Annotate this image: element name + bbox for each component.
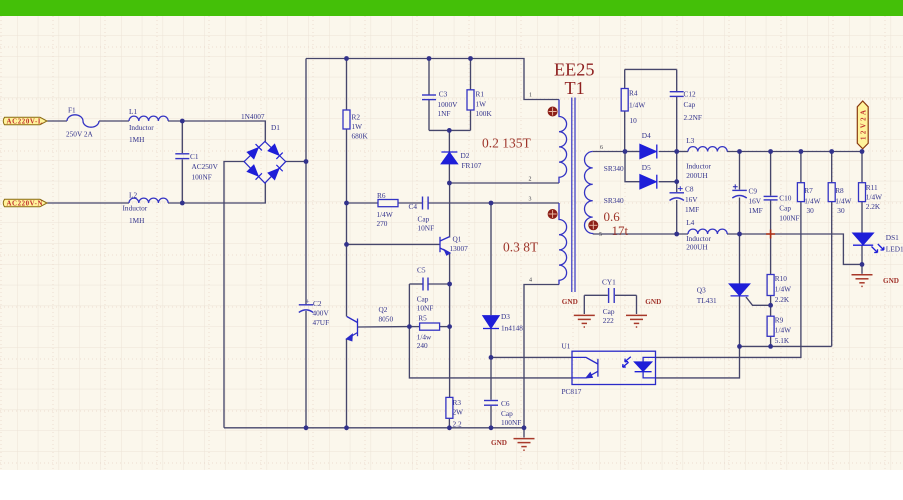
svg-text:222: 222 (603, 316, 614, 325)
svg-text:GND: GND (645, 298, 661, 306)
wire L2 to bridge bottom stem (168, 183, 265, 204)
wire LED gnd stem (861, 264, 863, 273)
diode D1a top-left (247, 144, 282, 180)
wire D3 top to pin3 node (490, 203, 492, 315)
svg-text:CY1: CY1 (602, 277, 616, 286)
wire secondary ground bus right of L4 (727, 234, 862, 264)
wire R10 top stem (770, 234, 772, 275)
LED DS1 (853, 233, 884, 252)
wire pin3 node to R6 (347, 202, 379, 204)
capacitor C1 (175, 154, 189, 159)
svg-text:47UF: 47UF (313, 318, 330, 327)
TL431 Q3 (730, 284, 750, 296)
svg-text:C12: C12 (684, 89, 697, 98)
capacitor C5 (423, 278, 428, 291)
wire GND stem below rail (523, 428, 525, 438)
port 12V2A (857, 101, 868, 149)
svg-text:2W: 2W (453, 408, 464, 417)
U1 coupling arrows (625, 357, 631, 362)
svg-text:C6: C6 (501, 399, 510, 408)
svg-text:0.2 135T: 0.2 135T (482, 136, 532, 151)
svg-text:C4: C4 (409, 202, 418, 211)
svg-text:1/4W: 1/4W (835, 196, 851, 205)
svg-text:16V: 16V (749, 196, 762, 205)
inductor L3 (688, 147, 727, 152)
resistor R4 (621, 89, 628, 112)
wire C4 to D3 node and transformer pin 3 (428, 202, 559, 204)
capacitor C2 electrolytic (299, 305, 313, 313)
wire R4 stems (624, 69, 626, 88)
port AC220V-N (3, 199, 47, 207)
wire secondary ground bus left of L4 (593, 233, 688, 235)
wire D2 anode to pin2 node (448, 164, 450, 183)
wire C12 stems (676, 69, 678, 91)
svg-text:U1: U1 (562, 341, 571, 350)
resistor R8 (828, 183, 835, 202)
svg-text:5.1K: 5.1K (775, 336, 790, 345)
polarity dot aux (548, 209, 558, 219)
svg-text:400V: 400V (313, 308, 330, 317)
svg-text:D5: D5 (642, 163, 651, 172)
wire Q2 emitter to ground rail (346, 339, 348, 428)
svg-text:C10: C10 (779, 194, 792, 203)
svg-text:2.2K: 2.2K (775, 295, 790, 304)
svg-text:10NF: 10NF (417, 304, 434, 313)
svg-text:R5: R5 (418, 313, 427, 322)
svg-text:C3: C3 (439, 90, 448, 99)
svg-text:5: 5 (599, 232, 602, 238)
svg-text:1/4W: 1/4W (804, 196, 820, 205)
wire R1 top stem (470, 59, 472, 90)
wire LED cathode to gnd node (861, 245, 863, 264)
wire C5 left node down to R5 node (408, 284, 410, 327)
wire Q1 collector (449, 183, 451, 238)
svg-text:17t: 17t (612, 223, 629, 238)
wire pin2 node to transformer pin 2 (449, 182, 559, 184)
wire R2 top stem (346, 59, 348, 111)
wire R2 bottom to base node (346, 129, 348, 203)
svg-text:F1: F1 (68, 106, 76, 115)
wire R8 top stem (831, 152, 833, 183)
svg-text:+: + (306, 297, 310, 306)
svg-text:AC220V-L: AC220V-L (7, 118, 43, 125)
svg-text:100NF: 100NF (192, 173, 212, 182)
svg-text:Inductor: Inductor (123, 204, 148, 213)
svg-text:1/4W: 1/4W (377, 210, 393, 219)
wire C10 bottom to ground bus (770, 201, 772, 235)
port AC220V-L (3, 117, 47, 125)
svg-text:R4: R4 (629, 88, 638, 97)
diode D2 FR107 (441, 152, 457, 164)
wire C6 bottom to ground rail (490, 406, 492, 428)
svg-text:1/4W: 1/4W (629, 100, 645, 109)
svg-text:Q2: Q2 (379, 305, 388, 314)
wire CY1 right to secondary gnd (615, 294, 637, 296)
svg-text:2.2K: 2.2K (866, 202, 881, 211)
wire Q2 base (358, 326, 410, 328)
svg-text:8050: 8050 (379, 314, 394, 323)
svg-text:L4: L4 (686, 218, 694, 227)
capacitor CY1 (609, 288, 615, 303)
svg-text:L3: L3 (686, 136, 694, 145)
svg-text:270: 270 (377, 219, 388, 228)
wire primary ground rail (224, 427, 524, 429)
diode D3 1n4148 (483, 316, 499, 329)
svg-text:D4: D4 (642, 131, 651, 140)
svg-text:13007: 13007 (450, 244, 469, 253)
ground symbol LED (852, 275, 873, 287)
svg-text:1: 1 (529, 93, 532, 99)
svg-text:R11: R11 (866, 183, 878, 192)
ground symbol CY1 left (574, 315, 595, 327)
svg-text:1MF: 1MF (749, 206, 763, 215)
junction red cross (766, 230, 775, 239)
wire D5 cathode to node (659, 152, 677, 182)
wire R7 bottom down to opto anode line (656, 202, 801, 358)
svg-text:R7: R7 (804, 186, 813, 195)
resistor R3 (446, 397, 453, 418)
capacitor C3 (422, 95, 436, 100)
wire anode node down to D5 (625, 152, 640, 182)
wire R3 bottom to ground rail (448, 418, 450, 428)
svg-text:100NF: 100NF (779, 213, 799, 222)
wire C10 top stem (770, 152, 772, 196)
resistor R6 (378, 200, 398, 207)
wire cathode node to L3 (677, 151, 688, 153)
fuse F1 (67, 115, 99, 127)
inductor L4 (688, 229, 727, 234)
svg-text:L1: L1 (129, 107, 137, 116)
wire C5 left stem (409, 283, 422, 285)
svg-text:4: 4 (529, 278, 532, 284)
capacitor C9 electrolytic (732, 184, 747, 198)
wire opto node to U1 pin4 (491, 356, 572, 358)
svg-text:Cap: Cap (779, 204, 791, 213)
svg-text:680K: 680K (352, 132, 369, 141)
svg-text:R3: R3 (453, 398, 462, 407)
diode D1b top-right (268, 144, 282, 158)
svg-text:Q1: Q1 (453, 235, 462, 244)
svg-text:1MH: 1MH (129, 135, 145, 144)
transformer secondary winding (585, 152, 593, 235)
svg-text:D2: D2 (461, 151, 470, 160)
svg-text:1/4W: 1/4W (775, 285, 791, 294)
svg-text:GND: GND (883, 277, 899, 285)
svg-text:AC250V: AC250V (192, 162, 219, 171)
svg-text:R10: R10 (775, 274, 788, 283)
diode D1c bottom-left (247, 165, 261, 179)
svg-text:AC220V-N: AC220V-N (7, 200, 43, 207)
svg-text:Cap: Cap (501, 409, 513, 418)
svg-text:Cap: Cap (603, 307, 615, 316)
svg-text:C5: C5 (417, 265, 426, 274)
svg-text:D3: D3 (501, 312, 510, 321)
svg-text:LED1: LED1 (886, 244, 903, 253)
U1 led (635, 362, 652, 371)
svg-text:C1: C1 (190, 152, 199, 161)
svg-text:+: + (733, 181, 737, 190)
svg-text:200UH: 200UH (686, 242, 708, 251)
svg-text:C8: C8 (685, 184, 694, 193)
svg-text:100K: 100K (476, 109, 493, 118)
svg-text:0.6: 0.6 (604, 209, 621, 224)
wire R9 bottom to divider node (770, 336, 772, 346)
svg-text:3: 3 (529, 197, 532, 203)
wire L1 to bridge top, node at C1 (168, 121, 265, 142)
svg-text:250V 2A: 250V 2A (66, 130, 94, 139)
svg-text:Cap: Cap (417, 294, 429, 303)
svg-text:1/4W: 1/4W (866, 193, 882, 202)
resistor R7 (797, 183, 804, 202)
svg-text:R9: R9 (775, 315, 784, 324)
wire R6 to C4 (398, 202, 422, 204)
wire snubber bottom node (429, 129, 471, 131)
wire secondary pin6 to rectifier anode node (593, 151, 625, 153)
svg-text:100NF: 100NF (501, 418, 521, 427)
svg-text:30: 30 (807, 206, 815, 215)
resistor R10 (767, 275, 774, 296)
ground symbol CY1 right (626, 315, 647, 327)
svg-text:DS1: DS1 (886, 233, 899, 242)
wire R5 right stem (440, 326, 450, 328)
wire C3 bottom stem (428, 100, 430, 130)
svg-text:1/4w: 1/4w (417, 332, 432, 341)
svg-text:EE25: EE25 (554, 59, 594, 79)
polarity dot secondary (588, 220, 598, 230)
svg-text:30: 30 (837, 206, 845, 215)
wire CY1 left to primary gnd (584, 294, 608, 296)
transformer primary winding (559, 100, 567, 184)
wire R11 bottom to LED anode (861, 202, 863, 234)
svg-text:GND: GND (562, 298, 578, 306)
wire AC-L port to fuse F1 (47, 120, 67, 122)
wire HV rail down to C2 (305, 59, 307, 305)
svg-text:16V: 16V (685, 195, 698, 204)
wire R1 bottom stem (470, 110, 472, 130)
svg-text:1NF: 1NF (438, 109, 451, 118)
svg-text:R6: R6 (377, 191, 386, 200)
wire TL431 top to ground bus (739, 234, 741, 284)
capacitor C6 (484, 401, 498, 406)
wire R11 top stem (861, 152, 863, 183)
wire R8 bottom down to divider node (831, 202, 833, 347)
svg-text:200UH: 200UH (686, 171, 708, 180)
svg-text:TL431: TL431 (697, 296, 717, 305)
svg-text:R1: R1 (476, 90, 485, 99)
svg-text:SR340: SR340 (604, 196, 624, 205)
green title bar (0, 0, 903, 16)
wire R10 bottom to ref node (770, 296, 772, 306)
wire C9 bottom to ground bus (739, 198, 741, 235)
diode D1d bottom-right (268, 165, 282, 179)
polarity dot primary (548, 107, 558, 117)
svg-text:T1: T1 (565, 78, 585, 98)
wire L3 to output port rail (727, 151, 862, 153)
svg-text:2.2: 2.2 (453, 419, 462, 428)
wire TL431 ref (746, 297, 771, 305)
wire anode node to D4 (625, 151, 640, 153)
wire bridge minus to bottom rail (224, 162, 245, 428)
transistor Q1 13007 (440, 237, 450, 255)
svg-text:1MF: 1MF (685, 205, 699, 214)
optocoupler U1 PC817 (572, 351, 656, 384)
svg-text:Cap: Cap (418, 215, 430, 224)
svg-text:R8: R8 (835, 186, 844, 195)
wire snubber node to D2 cathode (448, 130, 450, 151)
resistor R9 (767, 316, 774, 336)
svg-text:Q3: Q3 (697, 285, 706, 294)
wire C2 bottom to ground rail (305, 311, 307, 428)
svg-text:1/4W: 1/4W (775, 326, 791, 335)
svg-text:1W: 1W (352, 122, 363, 131)
wire bridge plus to HV rail (286, 161, 306, 163)
svg-text:6: 6 (600, 145, 603, 151)
wire TL431 cathode down through divider to U1 LED return (656, 296, 740, 378)
svg-text:10NF: 10NF (418, 224, 435, 233)
svg-text:2: 2 (529, 177, 532, 183)
inductor L1 (129, 116, 168, 121)
transformer T1 core (572, 98, 575, 293)
wire opto node to C6 (490, 357, 492, 399)
wire R5 left stem (409, 326, 419, 328)
svg-text:R2: R2 (352, 113, 361, 122)
wire snubber top link (625, 68, 677, 70)
svg-text:1MH: 1MH (129, 216, 145, 225)
transformer aux winding (559, 203, 567, 285)
bridge rectifier D1 (244, 141, 286, 183)
wire base node down to Q1 base tee and Q2 collector (346, 203, 348, 317)
svg-text:L2: L2 (129, 191, 137, 200)
svg-text:C2: C2 (313, 299, 322, 308)
svg-text:1W: 1W (476, 100, 487, 109)
wire R7 top stem (800, 152, 802, 183)
svg-text:Inductor: Inductor (686, 161, 711, 170)
svg-text:C9: C9 (749, 186, 758, 195)
svg-text:240: 240 (417, 341, 428, 350)
svg-text:0.3 8T: 0.3 8T (503, 240, 539, 255)
wire D3 bottom to opto node (490, 329, 492, 358)
capacitor C12 (670, 92, 684, 97)
wire top rail to transformer pin 1 (306, 59, 559, 100)
resistor R1 (467, 90, 474, 110)
resistor R11 (859, 183, 866, 202)
capacitor C10 (764, 196, 778, 200)
wire R5 node down to U1 pin3 (409, 327, 572, 378)
svg-text:PC817: PC817 (562, 387, 582, 396)
transistor Q2 8050 (347, 317, 358, 341)
svg-text:1N4007: 1N4007 (241, 112, 265, 121)
wire C9 top stem (739, 152, 741, 190)
wire Q1 emitter down through C5/R5 nodes to R3 (449, 253, 451, 398)
wire C8 bottom to ground bus (676, 200, 678, 234)
wire Q1 base (347, 243, 441, 245)
wire C5 right stem (428, 283, 449, 285)
wire D4 cathode to node (659, 151, 677, 153)
svg-text:1n4148: 1n4148 (501, 324, 523, 333)
svg-text:Cap: Cap (684, 100, 696, 109)
wire C3 top stem (428, 59, 430, 95)
diode D4 SR340 (640, 145, 657, 159)
wire C1 branch (181, 121, 183, 153)
wire AC-N port to L2 (47, 202, 129, 204)
wire divider node bus (740, 345, 832, 347)
svg-text:SR340: SR340 (604, 164, 624, 173)
svg-text:2.2NF: 2.2NF (684, 113, 702, 122)
resistor R2 (343, 110, 350, 129)
inductor L2 (129, 198, 168, 203)
wire cathode node down to C8 (676, 182, 678, 192)
svg-text:GND: GND (491, 439, 507, 447)
svg-text:10: 10 (630, 116, 638, 125)
wire fuse to L1 (99, 120, 129, 122)
diode D5 SR340 (640, 175, 657, 189)
wire R9 top stem (770, 305, 772, 316)
ground symbol primary bottom (514, 439, 535, 451)
wire transformer pin 4 to primary ground (524, 285, 559, 428)
capacitor C4 (423, 197, 429, 210)
capacitor C8 electrolytic (670, 186, 685, 200)
svg-text:FR107: FR107 (462, 161, 482, 170)
svg-text:Inductor: Inductor (129, 123, 154, 132)
svg-text:D1: D1 (271, 123, 280, 132)
resistor R5 (420, 323, 440, 330)
U1 phototransistor (597, 359, 599, 377)
